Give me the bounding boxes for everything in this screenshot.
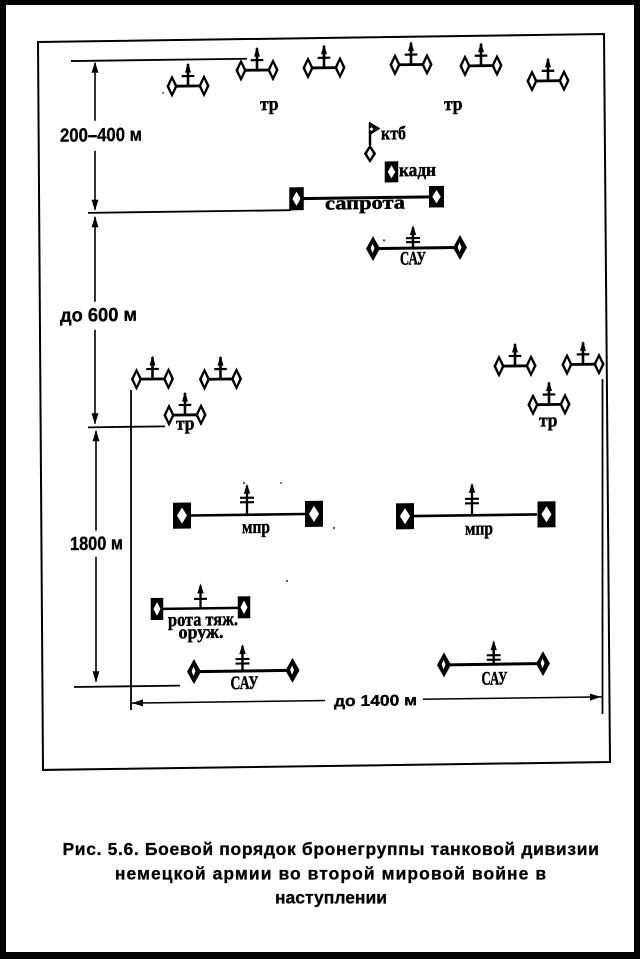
- svg-text:наступлении: наступлении: [275, 888, 387, 908]
- tank platoon symbol T8: [199, 355, 242, 390]
- svg-text:ктб: ктб: [381, 123, 406, 144]
- self-propelled gun unit symbol SAU3: [437, 640, 550, 678]
- self-propelled gun unit symbol SAU2: [187, 643, 300, 684]
- svg-text:до 600 м: до 600 м: [60, 305, 137, 327]
- motorized infantry company mpr-1 symbol: [173, 483, 323, 529]
- dimension arrow line do 600 m: [56, 216, 144, 425]
- dimension arrow line 1800 m: [66, 430, 128, 683]
- svg-text:тр: тр: [176, 413, 195, 434]
- tank platoon symbol T4: [389, 41, 432, 76]
- wire: left vertical of 1400 m span: [130, 390, 132, 710]
- wire: forward edge line (top): [71, 59, 247, 61]
- scan speckles: [162, 89, 385, 584]
- wire: bottom line: [74, 686, 180, 687]
- svg-text:мпр: мпр: [242, 517, 270, 538]
- ktb command post symbol: [364, 122, 381, 164]
- tank platoon symbol T3: [302, 44, 345, 79]
- svg-text:200–400 м: 200–400 м: [60, 125, 142, 147]
- svg-text:оруж.: оруж.: [179, 622, 224, 644]
- tank platoon symbol T12: [527, 381, 570, 416]
- svg-text:САУ: САУ: [482, 668, 508, 689]
- sapper company bar symbol: [289, 185, 444, 210]
- svg-text:САУ: САУ: [230, 673, 258, 694]
- motorized infantry company mpr-2 symbol: [396, 482, 556, 530]
- svg-text:до 1400 м: до 1400 м: [334, 692, 417, 710]
- svg-text:тр: тр: [444, 94, 463, 115]
- svg-text:Рис. 5.6. Боевой порядок броне: Рис. 5.6. Боевой порядок бронегруппы тан…: [62, 839, 599, 859]
- tank platoon symbol T9: [163, 391, 206, 426]
- svg-text:немецкой армии во второй миров: немецкой армии во второй мировой войне в: [115, 864, 547, 884]
- svg-text:САУ: САУ: [400, 248, 426, 269]
- tank platoon symbol T7: [131, 355, 174, 390]
- tank platoon symbol T6: [526, 57, 569, 92]
- self-propelled gun unit symbol SAU1: [366, 224, 467, 261]
- heavy weapons company symbol: [151, 583, 251, 620]
- tank platoon symbol T1: [166, 62, 209, 97]
- wire: first echelon rear line: [88, 210, 291, 213]
- kadn artillery battalion symbol: [385, 161, 399, 182]
- wire: second echelon line: [88, 426, 165, 427]
- svg-text:сапрота: сапрота: [325, 192, 406, 214]
- tank platoon symbol T2: [235, 46, 278, 81]
- svg-text:мпр: мпр: [465, 518, 493, 539]
- svg-text:кадн: кадн: [399, 160, 436, 181]
- tank platoon symbol T5: [459, 42, 502, 77]
- svg-text:1800 м: 1800 м: [70, 533, 123, 555]
- dimension arrow line do 1400 m: [131, 686, 602, 713]
- dimension arrow line 200-400 m: [56, 61, 148, 211]
- tank platoon symbol T10: [493, 342, 536, 377]
- svg-text:тр: тр: [539, 410, 558, 431]
- inner diagram frame: [38, 34, 610, 770]
- wire: right vertical of 1400 m span: [602, 379, 604, 714]
- tank platoon symbol T11: [561, 341, 604, 376]
- svg-text:тр: тр: [260, 94, 279, 115]
